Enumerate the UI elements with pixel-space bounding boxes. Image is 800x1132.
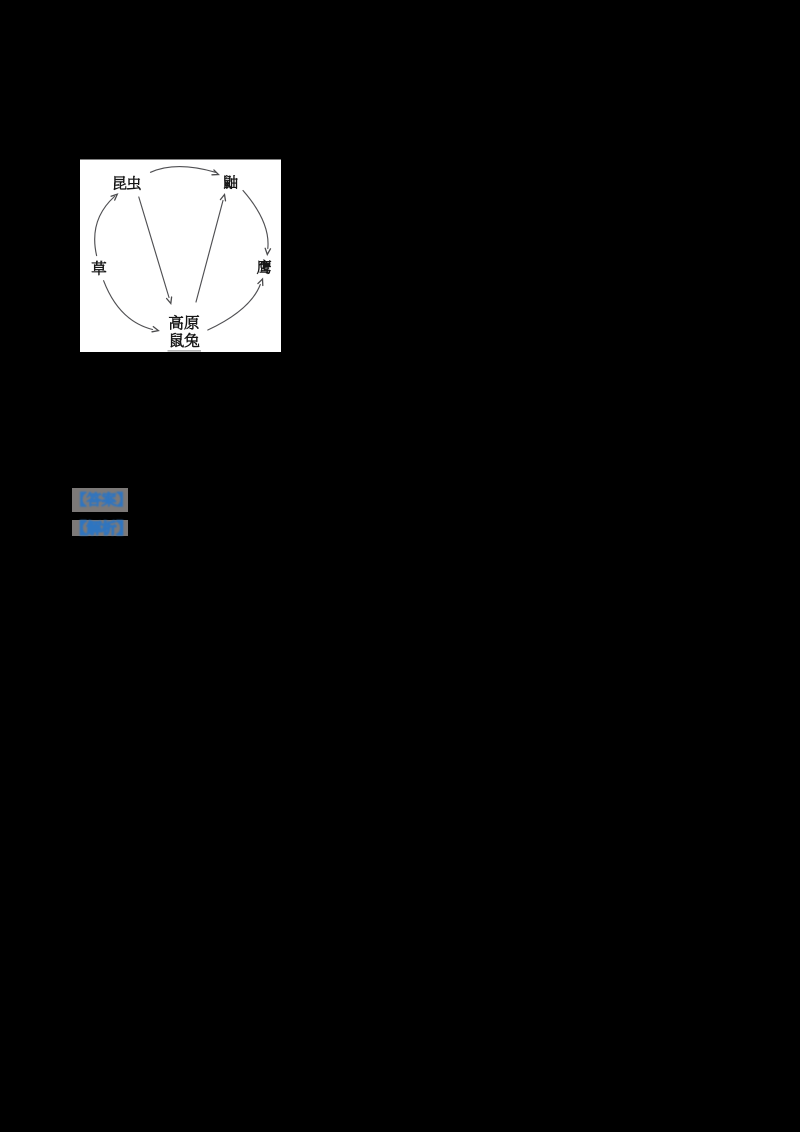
arrow 昆虫 to 鼬 (top arc) (151, 167, 219, 175)
arrow 高原鼠兔 to 鼬 (straight) (196, 195, 226, 303)
arrow 草 to 高原鼠兔 (bottom-left curve) (104, 281, 159, 332)
node 昆虫 (114, 176, 141, 190)
answer link block 【答案】 (72, 488, 128, 512)
node 草 (92, 261, 106, 275)
white diagram panel (80, 160, 281, 353)
analysis link block 【解析】 (72, 520, 128, 536)
arrow 鼬 to 鹰 (right curve) (243, 191, 271, 255)
arrow 高原鼠兔 to 鹰 (bottom-right curve) (208, 279, 263, 330)
node 鼬 (224, 175, 237, 188)
node 鹰 (257, 260, 271, 274)
arrow 草 to 昆虫 (left curve) (95, 194, 118, 255)
node 高原鼠兔 (169, 315, 199, 347)
arrow 昆虫 to 高原鼠兔 (straight) (139, 197, 172, 303)
faint underline below 鼠兔 (168, 350, 202, 352)
